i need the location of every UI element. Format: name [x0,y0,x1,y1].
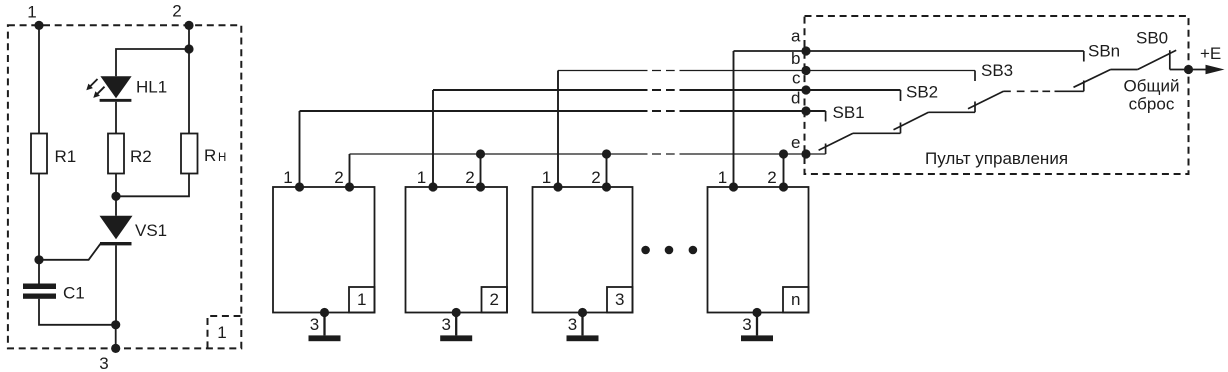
net e wire [350,153,826,155]
svg-text:1: 1 [27,3,36,22]
svg-text:2: 2 [591,168,600,187]
junction dot HL1/RH branch [184,44,193,53]
net a wire [734,50,1084,52]
resistor RH [181,134,198,174]
svg-text:e: e [791,133,800,152]
junction e/module2 [476,149,485,158]
ground module n [741,335,773,341]
wire HL1 to R2 [115,102,117,134]
ground module 3 [567,335,599,341]
svg-text:H: H [218,152,226,164]
junction e/module-n [779,149,788,158]
net d wire [300,110,826,112]
wire gate node to C1 [38,260,40,284]
resistor RH branch wire [188,49,190,134]
switch SB3 [968,71,1084,113]
node e dot [801,149,810,158]
node c dot [801,85,810,94]
svg-text:SB2: SB2 [906,83,938,102]
svg-text:n: n [791,290,800,309]
capacitor C1 [23,284,56,290]
wire branch to HL1 [116,49,189,76]
wire module1 pin1 riser [299,111,301,187]
svg-text:Пульт управления: Пульт управления [925,149,1068,168]
bottom junction dot [111,320,120,329]
wire module1 pin2 riser [349,154,351,187]
svg-text:2: 2 [334,168,343,187]
node 1 terminal dot [34,21,43,30]
wire to +E arrow [1189,69,1207,71]
wire R1 to gate node [38,174,40,260]
pin 3 of module 3 [578,308,587,317]
wire R2 to anode node [115,174,117,197]
junction e/module3 [602,149,611,158]
net b wire [558,70,975,72]
switch SB0 (common reset) [1138,50,1189,69]
svg-text:HL1: HL1 [136,78,167,97]
module box n [708,187,809,313]
node a dot [801,46,810,55]
svg-text:2: 2 [465,168,474,187]
ground module 2 [440,335,472,341]
module box 1 [273,187,375,313]
svg-text:R2: R2 [130,147,152,166]
svg-text:3: 3 [310,315,319,334]
wire module-n pin1 riser [733,51,735,187]
wire module2 pin1 riser [432,90,434,187]
gate wire [39,244,101,260]
dashed panel box [805,16,1189,174]
svg-text:1: 1 [217,323,226,342]
svg-text:1: 1 [283,168,292,187]
svg-text:b: b [791,49,800,68]
svg-text:2: 2 [172,2,181,21]
svg-text:3: 3 [441,315,450,334]
svg-text:d: d [791,89,800,108]
wire module3 pin2 riser [606,154,608,187]
svg-text:a: a [791,27,801,46]
switch SB1 [819,111,901,154]
svg-text:3: 3 [742,315,751,334]
svg-text:SB0: SB0 [1136,29,1168,48]
wire to node 3 [115,325,117,349]
node gate junction dot [34,255,43,264]
svg-text:R1: R1 [55,147,77,166]
svg-text:C1: C1 [63,284,85,303]
svg-text:SB3: SB3 [981,61,1013,80]
svg-text:3: 3 [615,290,624,309]
svg-text:1: 1 [718,168,727,187]
pin 3 of module 2 [452,308,461,317]
LED HL1 [100,76,131,98]
net c wire [433,89,901,91]
svg-text:2: 2 [489,290,498,309]
svg-text:c: c [792,69,801,88]
anode junction dot [111,192,120,201]
switch SBn [1074,51,1138,91]
svg-text:1: 1 [542,168,551,187]
svg-text:1: 1 [357,290,366,309]
svg-text:Общий: Общий [1124,77,1180,96]
pin 3 of module 1 [320,308,329,317]
svg-text:3: 3 [568,315,577,334]
wire RH to anode node [116,174,189,197]
thyristor VS1 [115,196,117,216]
svg-text:VS1: VS1 [135,221,167,240]
node 3 terminal dot [111,344,120,353]
node d dot [801,106,810,115]
wire module3 pin1 riser [557,71,559,188]
wire node1 to R1 [38,25,40,133]
inner corner box dashed edges [208,316,242,348]
svg-text:SB1: SB1 [833,103,865,122]
cathode wire [115,245,117,324]
svg-text:R: R [204,146,216,165]
wire C1 to bottom node [39,299,116,325]
dashed enclosure box (device 1) [8,25,241,348]
wire module2 pin2 riser [480,154,482,187]
+E arrow [1206,65,1225,74]
node 2 terminal dot [184,21,193,30]
node b dot [801,66,810,75]
svg-text:1: 1 [417,168,426,187]
switch SB2 [894,90,976,133]
module box 2 [406,187,508,313]
svg-text:2: 2 [767,168,776,187]
resistor R1 [31,134,47,174]
svg-text:3: 3 [99,354,108,372]
svg-text:SBn: SBn [1088,42,1120,61]
ellipsis dots [641,246,650,255]
resistor R2 [108,134,124,174]
module box 3 [533,187,633,313]
node +E output dot [1184,65,1193,74]
svg-text:+E: +E [1200,44,1221,63]
pin 3 of module n [752,308,761,317]
wire module-n pin2 riser [783,154,785,187]
wire node2 down [188,25,190,49]
svg-text:сброс: сброс [1129,95,1175,114]
ground module 1 [309,335,341,341]
